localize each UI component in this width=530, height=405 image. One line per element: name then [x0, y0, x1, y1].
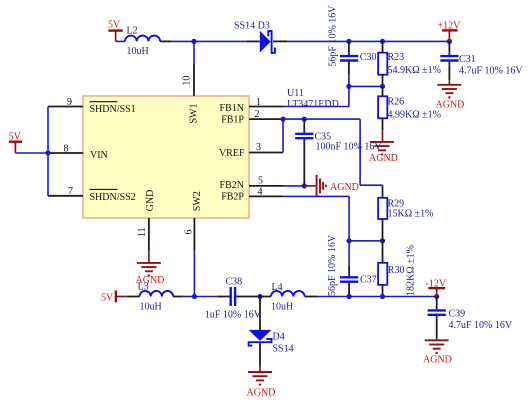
pin 7 SHDN/SS2 [48, 186, 136, 203]
svg-text:AGND: AGND [369, 153, 398, 164]
svg-text:10: 10 [182, 76, 193, 86]
wire: input bus (pins 9-8-7) [47, 107, 49, 196]
junction D4 anode [257, 294, 262, 299]
svg-text:5: 5 [258, 176, 263, 187]
power 5V (left) [9, 131, 22, 153]
pin 1 FB1N [220, 97, 283, 114]
junction R23 top [380, 39, 385, 44]
svg-text:10uH: 10uH [140, 302, 162, 313]
svg-text:182KΩ ±1%: 182KΩ ±1% [405, 245, 416, 296]
svg-text:FB1P: FB1P [221, 115, 244, 126]
capacitor C37 [327, 234, 377, 296]
wire: FB2N net (pin5 to AGND) [283, 185, 305, 187]
svg-text:SW2: SW2 [192, 191, 203, 211]
svg-text:1uF 10% 16V: 1uF 10% 16V [205, 309, 262, 320]
junction 5V input [45, 150, 50, 155]
junction R29/R30 [380, 238, 385, 243]
svg-text:AGND: AGND [330, 182, 359, 193]
pin 3 VREF [219, 142, 283, 159]
junction SW1 top [191, 39, 196, 44]
svg-text:AGND: AGND [136, 275, 165, 286]
svg-text:10uH: 10uH [271, 301, 293, 312]
svg-text:4.7uF 10% 16V: 4.7uF 10% 16V [449, 320, 513, 331]
capacitor C35 [295, 119, 382, 186]
svg-text:10uH: 10uH [127, 46, 149, 57]
wire: FB1N node (R23/R26 junction to pin 1) [349, 85, 383, 87]
pin 8 VIN [48, 143, 108, 161]
junction +12V/C31 [447, 39, 452, 44]
pin 2 FB1P [221, 109, 283, 126]
wire: SW2 node to C38 [194, 296, 217, 298]
svg-text:U11: U11 [287, 88, 304, 99]
svg-text:SS14 D3: SS14 D3 [234, 21, 270, 32]
wire: 5V to bus [15, 152, 48, 154]
svg-text:15KΩ ±1%: 15KΩ ±1% [388, 209, 434, 220]
junction C30 bottom [346, 84, 351, 89]
power -12V [426, 278, 447, 296]
svg-text:D4: D4 [273, 332, 285, 343]
wire: L3 to SW2 node [173, 296, 183, 298]
wire: FB2P net (pin4 right and down) [283, 195, 349, 197]
wire: D3 cathode to +12V rail [273, 40, 287, 42]
wire: L4 to -12V rail [317, 296, 437, 298]
resistor R29 [378, 185, 433, 241]
IC U11 body [83, 96, 249, 218]
svg-text:3: 3 [256, 142, 261, 153]
ground AGND (FB2N, rotated) [304, 175, 359, 197]
svg-text:9: 9 [67, 97, 72, 108]
svg-text:4.7uF 10% 16V: 4.7uF 10% 16V [459, 66, 523, 77]
junction R23/R26 [380, 84, 385, 89]
svg-text:FB1N: FB1N [220, 103, 244, 114]
pin 11 GND [137, 218, 149, 251]
ground AGND (below R26) [369, 130, 398, 164]
svg-text:C30: C30 [360, 52, 377, 63]
wire: node SW1 to D3 anode [194, 40, 247, 42]
svg-text:7: 7 [68, 186, 73, 197]
svg-text:L4: L4 [272, 282, 283, 293]
wire: 5V to L3 [127, 296, 140, 298]
svg-text:C39: C39 [449, 309, 466, 320]
wire: L2 to node SW1 [160, 40, 172, 42]
resistor R23 [378, 41, 441, 86]
power 5V (top left) [108, 20, 123, 42]
svg-text:FB2P: FB2P [221, 191, 244, 202]
svg-text:GND: GND [145, 190, 156, 212]
ground AGND (below C39) [423, 338, 452, 365]
svg-text:56pF 10% 16V: 56pF 10% 16V [327, 234, 338, 296]
pin 5 FB2N [220, 176, 283, 191]
svg-text:LT3471EDD: LT3471EDD [287, 99, 339, 110]
junction FB1P/VREF [280, 117, 285, 122]
diode D4 [249, 297, 294, 367]
wire: top rail 5V to L2 [116, 40, 125, 42]
svg-text:AGND: AGND [423, 355, 452, 366]
svg-text:FB2N: FB2N [220, 180, 244, 191]
capacitor C31 [440, 41, 523, 80]
svg-text:R30: R30 [388, 265, 405, 276]
svg-text:4: 4 [258, 186, 263, 197]
svg-text:C31: C31 [459, 54, 476, 65]
wire: FB2P tap to R29/R30 junction [349, 240, 382, 242]
svg-text:C37: C37 [360, 274, 377, 285]
inductor L4 [260, 282, 317, 312]
svg-text:SHDN/SS2: SHDN/SS2 [90, 192, 136, 203]
junction C35 top [302, 117, 307, 122]
svg-text:4.99KΩ ±1%: 4.99KΩ ±1% [388, 110, 441, 121]
svg-text:6: 6 [184, 230, 195, 235]
inductor L2 [125, 26, 160, 58]
pin 10 SW1 [182, 41, 195, 96]
junction SW2 bottom [192, 294, 197, 299]
svg-text:SS14: SS14 [273, 344, 294, 355]
svg-text:R26: R26 [388, 97, 405, 108]
svg-text:2: 2 [255, 109, 260, 120]
svg-text:5V: 5V [108, 20, 121, 31]
power +12V [438, 20, 462, 41]
svg-text:100nF 10% 16V: 100nF 10% 16V [316, 142, 383, 153]
pin 6 SW2 [184, 218, 195, 297]
svg-text:56pF 10% 16V: 56pF 10% 16V [327, 5, 338, 67]
junction C35 bottom [302, 183, 307, 188]
diode D3 [234, 21, 275, 53]
pin 9 SHDN/SS1 [48, 97, 136, 115]
svg-text:1: 1 [256, 97, 261, 108]
svg-text:L2: L2 [127, 26, 138, 37]
svg-text:54.9KΩ ±1%: 54.9KΩ ±1% [388, 65, 441, 76]
wire: FB1P net down to R29 [359, 119, 361, 185]
ground AGND (below D4) [247, 367, 276, 399]
svg-text:R23: R23 [388, 52, 405, 63]
junction C30 top [346, 39, 351, 44]
ground AGND (below C31) [436, 80, 465, 110]
ground AGND (pin 11) [136, 251, 165, 286]
resistor R26 [378, 86, 441, 130]
junction -12V/C39 [434, 294, 439, 299]
svg-text:VREF: VREF [219, 148, 245, 159]
wire: FB1P net to VREF and C35 [283, 118, 360, 120]
capacitor C39 [428, 297, 513, 339]
svg-text:C38: C38 [226, 276, 243, 287]
svg-text:AGND: AGND [436, 100, 465, 111]
svg-text:SHDN/SS1: SHDN/SS1 [90, 104, 136, 115]
svg-text:5V: 5V [101, 293, 114, 304]
junction C37 bottom [347, 294, 352, 299]
capacitor C30 [327, 5, 376, 87]
junction FB2P tap [347, 238, 352, 243]
junction R30 bottom [380, 294, 385, 299]
capacitor C38 [205, 276, 262, 320]
svg-text:SW1: SW1 [189, 104, 200, 124]
svg-text:VIN: VIN [90, 150, 108, 161]
svg-text:11: 11 [137, 227, 148, 237]
svg-text:AGND: AGND [247, 388, 276, 399]
pin 4 FB2P [221, 186, 283, 202]
power 5V (bottom) [101, 291, 127, 304]
svg-text:8: 8 [64, 143, 69, 154]
inductor L3 [138, 282, 174, 313]
resistor R30 [378, 241, 416, 297]
